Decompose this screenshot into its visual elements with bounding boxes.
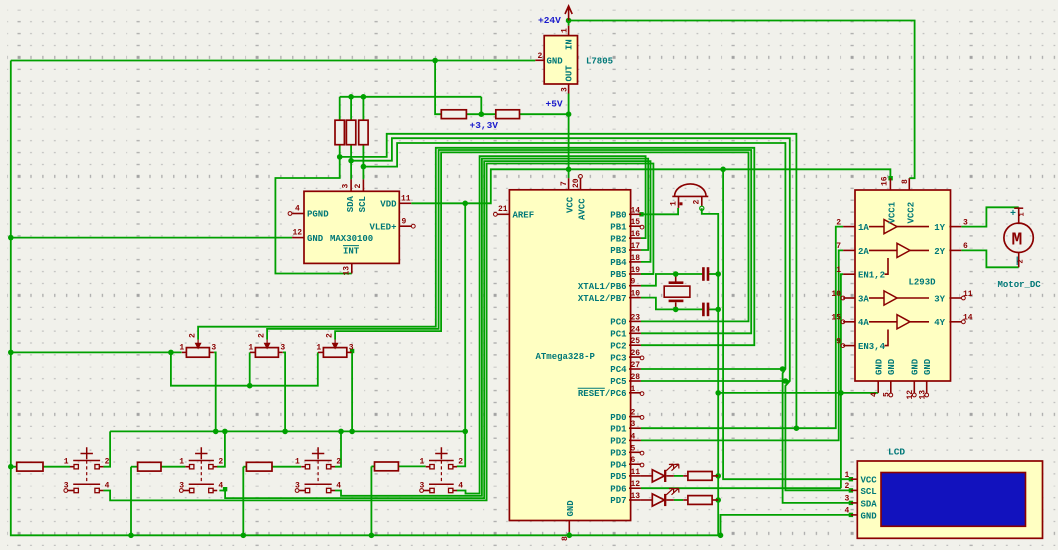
svg-text:5: 5 [631,444,636,453]
svg-text:MAX30100: MAX30100 [330,234,373,244]
svg-text:2: 2 [105,458,110,467]
svg-text:OUT: OUT [565,65,575,82]
svg-text:SCL: SCL [358,196,368,212]
svg-text:1Y: 1Y [934,223,945,233]
svg-text:24: 24 [631,325,641,334]
svg-text:L293D: L293D [909,278,937,288]
svg-text:GND: GND [566,500,576,517]
svg-text:+: + [1010,209,1016,220]
svg-text:28: 28 [631,373,641,382]
svg-text:3: 3 [631,420,636,429]
svg-text:2: 2 [845,482,850,491]
svg-text:13: 13 [343,266,352,276]
svg-text:PC2: PC2 [610,341,626,351]
svg-text:14: 14 [963,314,973,323]
svg-text:PD5: PD5 [610,472,626,482]
svg-text:4: 4 [845,507,850,516]
svg-text:XTAL2/PB7: XTAL2/PB7 [578,294,627,304]
svg-text:10: 10 [831,290,841,299]
svg-text:1: 1 [631,385,636,394]
svg-text:AREF: AREF [513,211,535,221]
svg-text:VCC: VCC [861,476,878,486]
svg-text:M: M [1012,231,1023,251]
svg-text:2: 2 [326,333,335,338]
svg-text:PB0: PB0 [610,211,626,221]
svg-text:1: 1 [420,458,425,467]
svg-text:13: 13 [631,492,641,501]
svg-text:2: 2 [258,333,267,338]
svg-text:2Y: 2Y [934,247,945,257]
svg-text:3: 3 [342,184,351,189]
svg-text:2: 2 [458,458,463,467]
svg-text:3: 3 [64,482,69,491]
svg-text:20: 20 [572,178,581,188]
svg-text:VDD: VDD [380,200,397,210]
svg-text:PB2: PB2 [610,234,626,244]
svg-text:4: 4 [458,482,463,491]
svg-text:2: 2 [836,218,841,227]
svg-text:15: 15 [631,218,641,227]
svg-text:16: 16 [880,176,889,186]
svg-text:PD0: PD0 [610,413,626,423]
svg-text:3: 3 [280,344,285,353]
svg-text:PD1: PD1 [610,424,627,434]
svg-text:4A: 4A [858,318,869,328]
svg-text:PB1: PB1 [610,222,627,232]
svg-text:PC0: PC0 [610,318,626,328]
svg-text:PC1: PC1 [610,330,627,340]
svg-text:1: 1 [836,266,841,275]
svg-text:4: 4 [105,482,110,491]
svg-text:2: 2 [538,52,543,61]
svg-text:2A: 2A [858,247,869,257]
svg-text:2: 2 [189,333,198,338]
svg-text:VCC: VCC [566,196,576,213]
svg-text:4: 4 [336,482,341,491]
svg-text:1A: 1A [858,223,869,233]
svg-text:GND: GND [547,57,564,67]
svg-text:12: 12 [631,480,641,489]
svg-text:15: 15 [831,314,841,323]
svg-text:6: 6 [963,242,968,251]
svg-text:SDA: SDA [346,195,356,212]
svg-text:2: 2 [218,458,223,467]
svg-text:PB4: PB4 [610,258,627,268]
svg-text:1: 1 [316,344,321,353]
svg-text:1: 1 [248,344,253,353]
svg-text:4Y: 4Y [934,318,945,328]
svg-text:PB3: PB3 [610,246,626,256]
svg-text:27: 27 [631,361,641,370]
svg-text:19: 19 [631,266,641,275]
svg-text:13: 13 [918,390,927,400]
svg-text:4: 4 [631,432,636,441]
svg-text:23: 23 [631,313,641,322]
svg-text:XTAL1/PB6: XTAL1/PB6 [578,282,627,292]
svg-text:RESET/PC6: RESET/PC6 [578,389,627,399]
svg-text:PD7: PD7 [610,496,626,506]
svg-text:3: 3 [349,344,354,353]
svg-text:11: 11 [963,290,973,299]
svg-text:PB5: PB5 [610,270,626,280]
svg-text:PGND: PGND [307,210,329,220]
svg-text:IN: IN [565,39,575,50]
svg-text:4: 4 [218,482,223,491]
svg-text:2: 2 [1018,259,1026,263]
svg-text:PD4: PD4 [610,460,627,470]
svg-text:16: 16 [631,230,641,239]
svg-text:PC4: PC4 [610,365,627,375]
svg-text:21: 21 [498,205,508,214]
svg-text:EN3,4: EN3,4 [858,342,886,352]
svg-text:PD2: PD2 [610,437,626,447]
svg-text:1: 1 [845,471,850,480]
svg-text:GND: GND [861,511,878,521]
svg-text:VCC1: VCC1 [888,201,898,223]
svg-text:EN1,2: EN1,2 [858,271,885,281]
svg-text:SCL: SCL [861,487,877,497]
svg-text:GND: GND [307,234,324,244]
svg-text:2: 2 [693,200,702,205]
svg-text:9: 9 [402,218,407,227]
svg-text:1: 1 [669,201,678,206]
svg-text:3: 3 [295,482,300,491]
svg-text:+24V: +24V [538,15,561,26]
svg-text:9: 9 [631,278,636,287]
svg-text:LCD: LCD [888,447,905,458]
svg-text:7: 7 [560,181,569,186]
svg-text:2: 2 [336,458,341,467]
svg-text:3: 3 [963,218,968,227]
svg-text:GND: GND [875,358,885,375]
svg-text:2: 2 [354,184,363,189]
svg-text:PC5: PC5 [610,377,626,387]
svg-text:Motor_DC: Motor_DC [998,280,1042,290]
svg-text:5: 5 [882,392,891,397]
svg-text:3: 3 [420,482,425,491]
svg-text:1: 1 [295,458,300,467]
svg-text:4: 4 [295,205,300,214]
svg-text:11: 11 [401,195,411,204]
svg-text:GND: GND [923,358,933,375]
svg-text:2: 2 [631,409,636,418]
svg-text:3A: 3A [858,294,869,304]
svg-text:8: 8 [561,536,570,541]
svg-text:1: 1 [1019,212,1027,216]
svg-text:GND: GND [911,358,921,375]
svg-text:7: 7 [836,242,841,251]
svg-text:1: 1 [179,344,184,353]
svg-text:25: 25 [631,337,641,346]
svg-text:8: 8 [901,179,910,184]
svg-text:26: 26 [631,349,641,358]
svg-text:PD3: PD3 [610,449,626,459]
svg-text:14: 14 [631,206,641,215]
svg-text:INT: INT [343,247,360,257]
svg-text:9: 9 [836,337,841,346]
svg-text:18: 18 [631,254,641,263]
svg-text:12: 12 [293,229,303,238]
svg-text:10: 10 [631,290,641,299]
svg-text:3: 3 [211,344,216,353]
svg-text:3: 3 [561,87,570,92]
svg-text:VLED+: VLED+ [369,223,396,233]
svg-text:4: 4 [870,392,879,397]
svg-text:AVCC: AVCC [577,198,587,220]
svg-text:+3,3V: +3,3V [470,120,499,131]
svg-text:1: 1 [561,28,570,33]
svg-text:L7805: L7805 [586,57,613,67]
svg-text:ATmega328-P: ATmega328-P [536,352,596,362]
svg-text:3: 3 [845,495,850,504]
svg-text:SDA: SDA [861,499,878,509]
svg-text:GND: GND [887,358,897,375]
svg-text:6: 6 [631,456,636,465]
svg-text:17: 17 [631,242,641,251]
svg-text:3: 3 [179,482,184,491]
svg-text:PD6: PD6 [610,484,626,494]
svg-text:1: 1 [64,458,69,467]
svg-text:+5V: +5V [546,99,563,110]
svg-text:VCC2: VCC2 [907,202,917,224]
svg-text:11: 11 [631,468,641,477]
svg-text:PC3: PC3 [610,353,626,363]
svg-text:3Y: 3Y [934,294,945,304]
svg-text:12: 12 [906,390,915,400]
svg-text:1: 1 [179,458,184,467]
